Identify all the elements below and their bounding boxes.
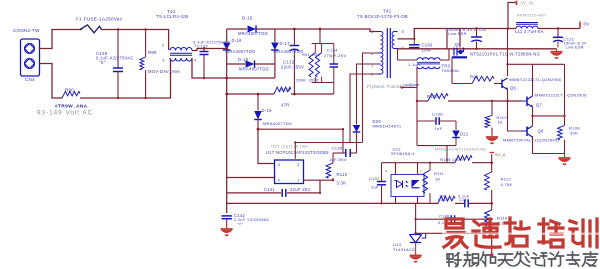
wire bridge top rail (227, 28, 247, 30)
svg-text:R100: R100 (427, 94, 438, 99)
capacitor C135 (117, 30, 119, 69)
svg-text:L11 4.7uH-6A: L11 4.7uH-6A (515, 29, 544, 34)
svg-text:8: 8 (402, 29, 404, 34)
svg-text:CONN2-TW: CONN2-TW (13, 28, 40, 33)
watermark slogan char He (481, 252, 496, 266)
resistor R110 3.3K (332, 153, 334, 163)
resistor R91 200K (314, 44, 316, 53)
transformer T41 TS-BCK20-1378-P3-DB primary (381, 32, 383, 75)
capacitor C132 22uF-250V (293, 29, 295, 46)
svg-text:Low ESR: Low ESR (566, 45, 584, 50)
svg-text:"Y": "Y" (237, 222, 244, 227)
svg-text:5V_IN: 5V_IN (521, 0, 534, 5)
svg-text:MMSD4148T1: MMSD4148T1 (373, 124, 402, 129)
svg-text:MMSD4148T1(Q2N4148): MMSD4148T1(Q2N4148) (435, 147, 487, 152)
wire drain link row (295, 142, 362, 144)
svg-text:C136: C136 (432, 112, 443, 117)
svg-text:R92: R92 (312, 52, 320, 57)
svg-text:C134: C134 (327, 48, 338, 53)
svg-text:F1 FUSE-1A250Vac: F1 FUSE-1A250Vac (76, 17, 123, 22)
resistor R96 (472, 76, 494, 83)
resistor R111 1K (429, 163, 431, 170)
mosfet Q5 NTS2101P (446, 29, 448, 49)
svg-text:R96: R96 (470, 75, 479, 80)
ground below C142 (226, 226, 228, 229)
svg-text:APM3216-4R7: APM3216-4R7 (517, 13, 547, 18)
transistor Q6 MMBT2222LT1 (501, 80, 503, 89)
svg-text:93-149 Volt AC: 93-149 Volt AC (37, 110, 93, 117)
resistor R92 200K (321, 44, 323, 53)
svg-text:1: 1 (371, 29, 373, 34)
capacitor C133 (203, 49, 205, 52)
svg-text:U17 NCP1013AP133TXGEBN: U17 NCP1013AP133TXGEBN (266, 150, 329, 155)
svg-text:0V: 0V (584, 21, 590, 26)
connector CN4 (CONN2-TW) (21, 39, 40, 76)
transistor Q7 MMBT2222LT1 (526, 97, 528, 107)
wire aux corner (342, 129, 344, 153)
svg-text:MMBT2907ALT1(Q2N2905): MMBT2907ALT1(Q2N2905) (503, 138, 560, 143)
resistor R99 47R (274, 87, 291, 94)
capacitor C166 10nF (413, 39, 415, 45)
svg-text:R115: R115 (438, 198, 448, 202)
wire IC pin4 row (227, 177, 275, 179)
svg-text:D-19: D-19 (262, 108, 273, 113)
svg-text:OUT (2)(1) IN (8a): OUT (2)(1) IN (8a) (271, 144, 309, 149)
svg-text:1K: 1K (435, 177, 441, 182)
svg-text:C147: C147 (459, 198, 469, 202)
wire Q7 emitter node (532, 107, 534, 126)
svg-text:Q6: Q6 (510, 86, 517, 91)
wire TL431 ref row (416, 233, 492, 255)
svg-text:TS-BCK20-1378-P3-DB: TS-BCK20-1378-P3-DB (357, 14, 408, 19)
diode D-19 MRA4007TDG (257, 94, 259, 111)
wire C146 row (416, 218, 450, 220)
wire IC pin1 row (304, 179, 334, 181)
shunt regulator U13 TL431A (410, 235, 422, 243)
wire top rail fuse to T42 (101, 30, 169, 51)
svg-text:C141: C141 (264, 187, 275, 192)
wire 5V rail (447, 28, 516, 30)
transformer T41 secondary (392, 32, 394, 49)
capacitor C141 22uF-25V (281, 189, 283, 197)
resistor R112 4.75K (491, 163, 493, 172)
svg-text:1.1uH: 1.1uH (408, 62, 420, 67)
svg-text:4.75K: 4.75K (501, 182, 513, 187)
net flag 5V_IN (508, 3, 517, 29)
node junctions IC area (257, 128, 260, 131)
node junctions output (413, 38, 415, 40)
svg-text:D-17: D-17 (280, 41, 291, 46)
svg-text:R111: R111 (434, 171, 445, 176)
watermark gloss band (442, 233, 600, 235)
wire T42 top out to bridge (192, 49, 227, 51)
svg-text:22uF-250V: 22uF-250V (281, 65, 304, 70)
svg-text:MMBT2222LT1-Q2N2906: MMBT2222LT1-Q2N2906 (535, 93, 587, 98)
wire bridge bottom (227, 77, 275, 79)
svg-text:D21: D21 (460, 132, 469, 137)
svg-text:MOV-DAV_A9A: MOV-DAV_A9A (148, 69, 180, 74)
wire T41 pin4 stub (363, 53, 378, 143)
ground below R108 (564, 155, 566, 158)
wire aux box bottom (417, 145, 456, 147)
svg-text:20K: 20K (570, 131, 578, 136)
watermark slogan char Zhuan (567, 252, 580, 266)
watermark char Xun (570, 219, 597, 247)
svg-text:TL431ACD: TL431ACD (393, 247, 415, 252)
wire secondary return pin6 (398, 48, 557, 50)
svg-text:Q5: Q5 (455, 42, 462, 47)
diode D-18 MRA4007TDG (246, 60, 255, 67)
watermark slogan char Xian (515, 252, 530, 266)
wire primary bus down to C142 (226, 78, 228, 213)
svg-text:1K: 1K (498, 120, 504, 125)
diode D-17 MRA4007TDG (271, 43, 279, 51)
watermark char Yi (444, 219, 467, 248)
svg-text:Q7: Q7 (536, 103, 543, 108)
svg-text:1uF: 1uF (371, 185, 379, 190)
svg-text:22uF-25V: 22uF-25V (290, 187, 311, 192)
wire Vcc row (333, 152, 345, 154)
wire feedback top row (382, 162, 456, 164)
svg-text:MRA4007TDG: MRA4007TDG (226, 49, 256, 54)
watermark char Pei (539, 219, 563, 247)
svg-text:4: 4 (194, 58, 197, 63)
wire drain row (258, 128, 343, 130)
svg-text:R89: R89 (148, 50, 157, 55)
wire TL431 cathode (415, 203, 417, 234)
wire Q6 collector to rail (507, 29, 509, 77)
diode D21 MMSD4148T1 (455, 121, 457, 130)
net flag ns4Base (400, 86, 403, 89)
svg-text:TS-LCLR4-I2B: TS-LCLR4-I2B (156, 14, 188, 19)
node junctions drive (506, 100, 508, 102)
svg-text:"X": "X" (99, 60, 106, 65)
coupled inductor TR3 T6522AL (398, 59, 418, 61)
svg-text:Low ESR: Low ESR (448, 31, 467, 36)
wire connector bottom pin to bottom rail (40, 64, 63, 99)
wire T42 bottom out to bridge bottom (192, 58, 227, 78)
varistor R89 MOV-DAV_A9A (145, 30, 147, 58)
wire feedback bottom row from bus (227, 202, 382, 204)
watermark slogan char She (447, 253, 461, 267)
common-mode choke T42 TS-LCLR4-I2B (170, 47, 192, 50)
inductor L11 APM3216-4R7 4.7uH-6A (516, 26, 538, 28)
wire TR3 primary left stub (397, 49, 399, 60)
wire bottom rail R90 to T42 (80, 59, 171, 99)
svg-text:R110: R110 (337, 172, 348, 177)
resistor R116 2.15K (491, 203, 493, 210)
svg-text:ns4Base: ns4Base (404, 83, 420, 87)
svg-text:3.3K: 3.3K (337, 181, 347, 186)
svg-text:T41: T41 (383, 9, 392, 14)
resistor R107 1K (491, 101, 493, 115)
wire bridge mid row D-18 (227, 63, 245, 65)
wire snubber bottom bar (312, 82, 334, 84)
watermark slogan char Pin (464, 252, 479, 266)
wire TR3 secondary to aux box (416, 67, 418, 146)
watermark char Tuo (505, 218, 529, 246)
net flag 0V (579, 22, 581, 29)
wire Q8 base row (508, 101, 522, 131)
wire Q6 emitter to base row (507, 90, 509, 102)
transformer T41 core (387, 28, 390, 78)
svg-text:3: 3 (162, 58, 165, 63)
node junctions snubber (293, 28, 296, 31)
svg-text:MRA4007TDG: MRA4007TDG (238, 31, 268, 36)
svg-text:C137: C137 (369, 176, 380, 181)
wire pin8 up to 5V rail (414, 29, 447, 39)
wire snubber feed (319, 29, 321, 44)
capacitor C120 1500uF-6.3V (476, 29, 478, 38)
watermark char Di (473, 219, 500, 247)
node junction T42/bridge (225, 47, 228, 50)
wire B+ rail to transformer T41 (275, 29, 378, 32)
svg-text:MMBT2222LT1-Q2N2906: MMBT2222LT1-Q2N2906 (510, 77, 562, 82)
wire drain to IC pin3 (258, 129, 275, 163)
watermark slogan char Ji (549, 252, 564, 266)
svg-text:C133: C133 (197, 44, 208, 49)
wire bridge right vertical (D-17 column) (274, 29, 276, 42)
resistor R105 100R (455, 156, 472, 163)
svg-text:5V_A: 5V_A (495, 152, 506, 157)
wire T41 pin3 stub (357, 64, 378, 65)
svg-text:1uF-50V: 1uF-50V (329, 157, 347, 162)
node junctions feedback (414, 218, 416, 220)
wire C141 row (227, 192, 281, 194)
resistor R100 (428, 94, 448, 102)
wire T41 pin2 to drain node (350, 74, 378, 143)
watermark slogan char She2 (532, 253, 547, 266)
svg-text:R90: R90 (65, 88, 74, 93)
diode D-15 MRA4007TDG (248, 25, 257, 32)
svg-text:C138: C138 (332, 146, 343, 151)
fuse F1 FUSE-1A250Vac (80, 25, 102, 33)
ground output return (556, 49, 558, 52)
wire Q7 collector up (532, 64, 534, 96)
wire base row (417, 100, 428, 102)
svg-text:1: 1 (420, 170, 422, 174)
wire IC pin2 up (294, 143, 296, 159)
svg-text:T6522AL: T6522AL (442, 68, 461, 73)
resistor R108 20K (564, 64, 566, 125)
svg-text:D-18: D-18 (238, 57, 249, 62)
svg-text:R105 100R: R105 100R (440, 157, 463, 162)
capacitor C121 150uF-6.3V (557, 29, 559, 38)
resistor R90 (62, 91, 80, 98)
optocoupler U12 SFH615A (391, 174, 424, 196)
svg-text:R112: R112 (501, 177, 512, 182)
svg-text:Q8: Q8 (538, 129, 545, 134)
svg-text:D-16: D-16 (232, 38, 243, 43)
watermark slogan char Tian (499, 254, 513, 266)
capacitor C142 2.2nF-Y2/250VAC (222, 215, 232, 217)
ground below R107 (491, 134, 493, 137)
svg-text:4: 4 (385, 170, 387, 174)
capacitor C136 1nF (417, 120, 435, 122)
transistor Q8 MMBT2907ALT1 (526, 127, 528, 137)
wire bridge left vertical (D-16 column) (226, 29, 228, 42)
svg-text:200K: 200K (309, 78, 319, 83)
net flag 5V_A (491, 154, 493, 163)
diode D20 MMSD4148T1 (356, 65, 358, 125)
capacitor C137 1uF (381, 163, 383, 182)
svg-text:CN4: CN4 (25, 77, 35, 82)
wire secondary pin8 (398, 38, 415, 40)
svg-text:R91: R91 (302, 52, 310, 57)
resistor R115 10K + capacitor C147 0.1uF (438, 196, 455, 203)
controller U17 NCP1013AP133TXGEBN (275, 160, 304, 184)
svg-text:1nF: 1nF (435, 126, 443, 131)
svg-text:D-15: D-15 (242, 16, 253, 21)
capacitor C138 1uF-50V (345, 149, 347, 157)
wire Q8 collector down (533, 136, 565, 154)
wire connector top pin to top rail (40, 30, 83, 49)
svg-text:270pF-2KV: 270pF-2KV (324, 53, 346, 58)
svg-text:NTS2101PXL T1G-N-T2865N-NG: NTS2101PXL T1G-N-T2865N-NG (470, 51, 540, 56)
net A164 wire with snubber return (227, 93, 274, 95)
watermark slogan char Jia (583, 252, 598, 266)
svg-text:MRA4007TDG: MRA4007TDG (239, 67, 269, 72)
svg-text:MRA4007TDG: MRA4007TDG (274, 49, 304, 54)
svg-text:3: 3 (371, 63, 373, 68)
capacitor C134 270pF-2KV (333, 44, 335, 65)
svg-text:47R: 47R (281, 103, 290, 108)
svg-text:2: 2 (162, 43, 165, 48)
wire feedback bottom row right (382, 202, 439, 204)
ground below U13 (415, 243, 417, 253)
svg-text:200K: 200K (296, 78, 306, 83)
diode D-16 MRA4007TDG (223, 43, 231, 51)
svg-text:MRA4007TDG: MRA4007TDG (263, 121, 292, 126)
svg-text:2: 2 (371, 72, 373, 77)
svg-text:SFH615A-4: SFH615A-4 (391, 151, 415, 156)
